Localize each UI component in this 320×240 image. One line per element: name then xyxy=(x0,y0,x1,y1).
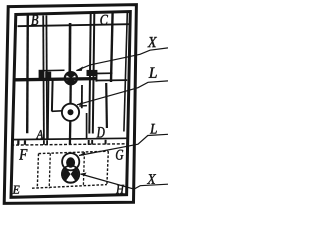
dashed box bottom xyxy=(32,185,107,189)
shaft between circles xyxy=(69,84,71,105)
bar b6 lower xyxy=(105,83,108,128)
short bar below pulley right xyxy=(86,113,88,139)
arrowhead X1 xyxy=(76,66,83,71)
label G xyxy=(116,150,123,160)
label X2 xyxy=(147,174,156,184)
leader L2 xyxy=(79,134,168,155)
inner frame xyxy=(11,12,130,198)
lower stub pair3 left xyxy=(43,140,45,145)
bracket block left 2 xyxy=(45,72,51,79)
arrowhead X2 xyxy=(80,173,86,176)
label X1 xyxy=(147,37,157,47)
lower circle pair: top circle (L2) xyxy=(62,153,79,170)
bar pair5 right xyxy=(93,14,95,134)
crossed circle X (upper lock) xyxy=(65,72,77,85)
inner dashed vertical 2 xyxy=(83,152,84,185)
label F xyxy=(19,149,27,159)
lower stub pair5 right xyxy=(91,140,93,145)
A-D meeting line xyxy=(11,138,127,139)
label B xyxy=(31,15,38,25)
label L2 xyxy=(150,124,157,134)
bracket top line right xyxy=(96,72,113,74)
label H xyxy=(116,185,124,193)
bracket block left 1 xyxy=(39,70,45,78)
lower stub bar 1 xyxy=(17,141,19,145)
lower stub pair5 left xyxy=(88,140,90,145)
top link line xyxy=(44,69,65,71)
hanger left xyxy=(51,81,54,112)
leader X2 xyxy=(81,174,169,189)
outer frame xyxy=(4,5,136,204)
dashed box top xyxy=(39,151,109,153)
center stile above lock xyxy=(69,23,72,72)
lower stub bar 2 xyxy=(24,140,26,144)
inner dashed vertical 1 xyxy=(49,153,50,188)
leader L1 xyxy=(77,81,168,105)
label A xyxy=(36,130,43,138)
leader X1 xyxy=(76,48,168,71)
bottom circle wedges xyxy=(62,166,79,183)
bar b7 (inner right) xyxy=(124,13,127,132)
shaft below pulley xyxy=(69,121,72,145)
label E xyxy=(13,186,20,194)
bar pair3 right xyxy=(45,15,48,139)
bracket block right xyxy=(87,70,98,76)
pulley circle L (upper) xyxy=(62,104,79,121)
top rail xyxy=(18,24,129,26)
operating rod thick xyxy=(16,79,97,80)
lower circle pair: bottom circle (X2) xyxy=(62,166,79,183)
bracket vertical right xyxy=(95,72,97,82)
label C xyxy=(100,15,108,25)
rod thin right xyxy=(96,79,127,81)
bar b1 xyxy=(26,14,29,133)
label D xyxy=(97,127,105,137)
slide bar left thin xyxy=(47,78,50,139)
dashed box right xyxy=(107,151,108,185)
bar b6 upper xyxy=(111,13,113,83)
dashed full-width line xyxy=(11,144,127,145)
labels (as paths) xyxy=(13,15,157,194)
bar pair5 left xyxy=(89,14,90,134)
arrowhead L1 xyxy=(77,101,83,105)
hanger right xyxy=(81,85,83,108)
hanger stub xyxy=(79,105,87,107)
hanger left foot xyxy=(52,110,62,113)
bar pair3 left xyxy=(42,16,45,140)
dashed box left xyxy=(37,154,38,188)
label L1 xyxy=(149,68,157,78)
arrowhead L2 xyxy=(79,152,85,156)
lower stub b6 xyxy=(105,140,107,145)
lower stub pair3 right xyxy=(46,140,48,145)
